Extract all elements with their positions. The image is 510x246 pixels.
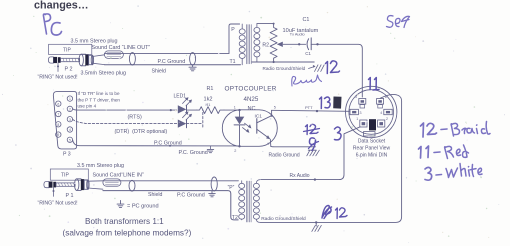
svg-text:P.C Ground: P.C Ground (177, 193, 205, 199)
svg-text:(RTS): (RTS) (128, 114, 142, 120)
svg-text:4N25: 4N25 (244, 96, 259, 103)
handwritten note "PC" (43, 14, 61, 35)
note "(salvage from telephone modems?)" (63, 229, 192, 238)
note "If DTR line is to be the PTT driver, then use pin 4" (78, 91, 121, 109)
svg-text:Sound Card “LINE OUT”: Sound Card “LINE OUT” (92, 45, 151, 51)
svg-text:3.5mm Stereo plug: 3.5mm Stereo plug (81, 71, 127, 77)
svg-text:Data Socket: Data Socket (358, 139, 386, 145)
note "Both transformers 1:1" (85, 217, 164, 226)
handwritten "12" (crossed) (304, 124, 320, 134)
svg-text:4: 4 (69, 128, 71, 132)
svg-text:2: 2 (386, 117, 388, 121)
callout box TIP (P2) (49, 44, 92, 54)
wire PTT line (272, 110, 350, 112)
wire IC1 emitter to radio ground (271, 145, 316, 148)
label "Sound Card LINE OUT" (92, 45, 151, 51)
J1 pin (mid-left, PTT) (350, 109, 362, 115)
optocoupler light arrows (243, 123, 252, 133)
label "P.C Ground" (top cable) (158, 59, 186, 65)
label "OPTOCOUPLER" (225, 86, 277, 93)
label "C1" (above) (303, 17, 310, 23)
handwritten "Braid" script (292, 75, 322, 86)
svg-text:Radio Ground/Shield: Radio Ground/Shield (263, 66, 306, 71)
handwritten "12 - Braid" (421, 122, 491, 138)
svg-text:PTT: PTT (305, 105, 313, 110)
wire radio ground/shield DIN to T2 (261, 94, 402, 222)
label "T2" (232, 215, 238, 221)
label "P2" (65, 66, 73, 72)
label "R1" (207, 86, 214, 92)
wire R1 to optocoupler pin1 (224, 109, 240, 111)
label "P" (T1 primary) (231, 27, 235, 33)
wire P1 to cable (bottom pair) (88, 181, 103, 189)
svg-text:P.C. Ground: P.C. Ground (179, 150, 208, 156)
LED LED1 (RTS) (178, 97, 192, 113)
svg-text:1k2: 1k2 (204, 97, 213, 103)
svg-text:T1: T1 (230, 59, 236, 65)
pin label 5 (IC1) (274, 106, 276, 110)
svg-text:9: 9 (57, 133, 59, 137)
label "Rear Panel View" (353, 146, 391, 152)
ground symbol PC ground (bottom cable) (209, 191, 215, 197)
potentiometer R2 (270, 24, 299, 62)
svg-text:4: 4 (267, 142, 269, 146)
label "Tx Audio" (small) (290, 32, 305, 36)
label "PTT" (305, 105, 313, 110)
J1 pin (bottom-left, Rx audio) (356, 117, 367, 127)
cable shield ring (bottom, right) (211, 177, 217, 191)
label "Data Socket" (358, 139, 386, 145)
svg-text:5: 5 (355, 95, 357, 99)
svg-text:“RING” Not used!: “RING” Not used! (38, 200, 78, 206)
svg-text:8: 8 (57, 123, 59, 127)
label "R2" (262, 42, 269, 48)
junction node R2 wiper / C1 (298, 43, 300, 45)
handwritten "12" (T1 shield) (326, 61, 340, 74)
svg-text:4: 4 (380, 111, 382, 115)
svg-text:P: P (231, 27, 235, 33)
wire RTS line (73, 109, 177, 111)
svg-text:IC1: IC1 (255, 114, 263, 120)
optocoupler phototransistor Q (internal) (257, 110, 273, 146)
connector P3 DB9 body (53, 92, 76, 149)
svg-text:Shield: Shield (152, 68, 167, 74)
svg-text:C1: C1 (305, 51, 311, 56)
J1 pin (bottom-right) (378, 117, 388, 127)
wire ring-contact stub (P2) (57, 63, 59, 72)
J1 pin (top-left, Tx audio) (355, 95, 366, 108)
handwritten "13" + scribble (320, 97, 342, 109)
wire shielded cable bottom top-conductor (103, 180, 239, 182)
svg-text:T2: T2 (232, 215, 238, 221)
label "LED1" (174, 94, 187, 100)
label "NC" (248, 106, 256, 112)
label "IC1" (255, 114, 263, 120)
J1 key slot (364, 132, 376, 136)
svg-text:changes…: changes… (34, 0, 89, 12)
label "(RTS)" (128, 114, 142, 120)
svg-text:use pin 4: use pin 4 (78, 104, 97, 109)
svg-text:3: 3 (69, 118, 71, 122)
wire P2 to cable (top pair) (92, 55, 104, 65)
J1 pin (top-right) (377, 95, 387, 108)
label "RING Not used!" (P1) (38, 200, 78, 206)
svg-text:5: 5 (69, 138, 71, 142)
label "RING Not used!" (P2) (38, 74, 78, 80)
svg-text:6 pin Mini DIN: 6 pin Mini DIN (356, 153, 388, 159)
wire LED1 to R1 (187, 109, 197, 111)
label "4N25" (244, 96, 259, 103)
svg-text:Tx Audio: Tx Audio (290, 32, 305, 36)
svg-text:3: 3 (360, 111, 362, 115)
svg-text:“RING” Not used!: “RING” Not used! (38, 74, 78, 80)
svg-text:= PC ground: = PC ground (127, 204, 159, 210)
svg-text:Both transformers 1:1: Both transformers 1:1 (85, 217, 164, 226)
connector P3 pins 1-9 (56, 96, 73, 143)
label "3.5 mm Stereo plug" (P2 top) (71, 38, 118, 44)
wire DTR dashed line (73, 119, 178, 123)
label "6 pin Mini DIN" (356, 153, 388, 159)
svg-text:6: 6 (57, 102, 59, 106)
svg-text:7: 7 (57, 113, 59, 117)
pin label 4 (IC1) (267, 142, 269, 146)
LED DTR optional (dashed) (178, 111, 192, 127)
wire shielded cable top shield line (104, 64, 240, 66)
cable strain relief (bottom) (103, 179, 121, 186)
label "C1" (below capacitor) (305, 51, 311, 56)
ground symbol radio ground (T1) (309, 65, 325, 72)
cable shield ring (top, left) (129, 53, 135, 65)
svg-text:LED1: LED1 (174, 94, 187, 100)
svg-text:the P T T driver, then: the P T T driver, then (78, 97, 121, 102)
svg-text:C1: C1 (303, 17, 310, 23)
optocoupler IC1 body (222, 110, 277, 147)
wire shielded cable top conductor (104, 52, 229, 54)
title note "changes..." (34, 0, 89, 12)
ground symbol (bottom shield) (312, 221, 322, 231)
svg-text:Radio Ground/Shield: Radio Ground/Shield (261, 216, 306, 222)
wire ring-contact stub (P1) (53, 187, 55, 196)
ground symbol PC ground (top cable) (189, 65, 196, 71)
svg-text:“P”: “P” (228, 185, 235, 191)
cable shield ring (bottom, left) (129, 180, 135, 191)
legend ground symbol = PC ground (117, 201, 158, 210)
label "Shield" (bottom cable) (148, 192, 163, 198)
label "1k2" (204, 97, 213, 103)
label "P1" (66, 193, 74, 199)
cable strain relief (top) (104, 51, 123, 59)
svg-text:P 2: P 2 (65, 66, 73, 72)
wire T1 secondary top to R2 (257, 23, 275, 25)
svg-text:OPTOCOUPLER: OPTOCOUPLER (225, 86, 277, 93)
label "P" (T2 primary) (228, 185, 235, 191)
wire C1 to DIN pin Tx Audio (311, 43, 362, 97)
label "P.C Ground" (line above) (154, 140, 182, 146)
label "(DTR) (DTR optional)" (115, 129, 168, 135)
label "P.C Ground" (bottom cable) (177, 193, 205, 199)
label "R1" (small) (206, 103, 211, 107)
svg-text:Radio Ground: Radio Ground (269, 152, 300, 158)
handwritten scribble (bottom, crossed out) (322, 206, 332, 219)
wire R2 wiper to C1 (299, 43, 305, 45)
label "Radio Ground/Shield" (bottom) (261, 216, 306, 222)
svg-text:Sound Card“LINE IN”: Sound Card“LINE IN” (93, 172, 144, 178)
connector J1 mini-DIN inner circle (349, 90, 394, 135)
label "Radio Ground/Shield" (T1) (263, 66, 306, 71)
label "P.C. Ground" (below line) (179, 150, 208, 156)
connector P2 3.5mm stereo plug (48, 54, 93, 66)
svg-text:(DTR) (DTR optional): (DTR) (DTR optional) (115, 129, 168, 135)
wire DTR option join (dashed) (187, 110, 203, 127)
label "Sound Card LINE IN" (93, 172, 144, 178)
wire radio ground/shield (T1) (252, 61, 314, 63)
svg-text:Shield: Shield (148, 192, 163, 198)
label "P3" (63, 152, 71, 158)
transformer T2 (239, 180, 261, 223)
svg-text:1: 1 (234, 106, 236, 110)
svg-text:Rx Audio: Rx Audio (290, 173, 310, 179)
svg-text:2: 2 (69, 108, 71, 112)
svg-text:TIP: TIP (61, 173, 69, 179)
connector J1 mini-DIN outer circle (346, 86, 397, 137)
label "Shield" (top cable) (152, 68, 167, 74)
optocoupler pin 2 node (238, 145, 240, 147)
J1 pin (mid-right) (380, 109, 392, 115)
label "3.5 mm Stereo plug" (P1) (77, 163, 124, 169)
wire cable center to T1 primary top (229, 24, 240, 53)
callout box TIP (P1) (50, 169, 88, 180)
svg-text:(salvage from telephone modems: (salvage from telephone modems?) (63, 229, 192, 238)
handwritten scribble "9" (309, 138, 319, 151)
handwritten "11 - Red" (419, 145, 469, 159)
svg-text:P.C Ground: P.C Ground (154, 140, 182, 146)
label "3.5mm Stereo plug" (below P2) (81, 71, 127, 77)
pin label 2 (IC1) (234, 149, 236, 153)
svg-text:1: 1 (356, 117, 358, 121)
svg-text:3.5 mm Stereo plug: 3.5 mm Stereo plug (71, 38, 118, 44)
svg-text:R1: R1 (207, 86, 214, 92)
ground symbol radio ground (opto) (307, 150, 320, 156)
svg-text:Rear Panel View: Rear Panel View (353, 146, 391, 152)
connector P1 3.5mm stereo plug (44, 179, 89, 191)
svg-text:P 1: P 1 (66, 193, 74, 199)
label "T1" (230, 59, 236, 65)
handwritten "3 - White" (425, 164, 482, 181)
wire Rx audio DIN to T2 (261, 127, 360, 181)
svg-text:2: 2 (234, 149, 236, 153)
handwritten "12" (bottom shield) (336, 208, 348, 219)
label "Rx Audio" (290, 173, 310, 179)
optocoupler pin 1 node (238, 109, 240, 111)
handwritten "11" (above DIN) (369, 78, 380, 91)
handwritten "3" (PTT area) (335, 127, 342, 140)
wire PC ground line (73, 140, 240, 147)
optocoupler internal LED (234, 110, 245, 146)
J1 key (center black) (369, 119, 376, 130)
svg-text:TIP: TIP (63, 48, 71, 54)
svg-text:NC: NC (248, 106, 256, 112)
label "10uF tantalum" (283, 28, 319, 34)
capacitor C1 (307, 38, 311, 50)
resistor R1 (197, 107, 224, 114)
cable shield ring (top, right) (190, 53, 196, 65)
svg-text:R2: R2 (262, 42, 269, 48)
svg-text:P 3: P 3 (63, 152, 71, 158)
svg-text:If “D TR” line is to be: If “D TR” line is to be (78, 91, 120, 96)
svg-text:3.5 mm Stereo plug: 3.5 mm Stereo plug (77, 163, 124, 169)
wire shielded cable bottom shield line (103, 191, 238, 220)
handwritten "Se7" (top right) (387, 16, 410, 28)
svg-text:1: 1 (69, 97, 71, 101)
ground symbol PC ground (mid) (207, 146, 213, 153)
svg-text:P.C Ground: P.C Ground (158, 59, 186, 65)
svg-text:5: 5 (274, 106, 276, 110)
label "Radio Ground" (opto) (269, 152, 300, 158)
pin label 1 (IC1) (234, 106, 236, 110)
transformer T1 (239, 24, 260, 65)
